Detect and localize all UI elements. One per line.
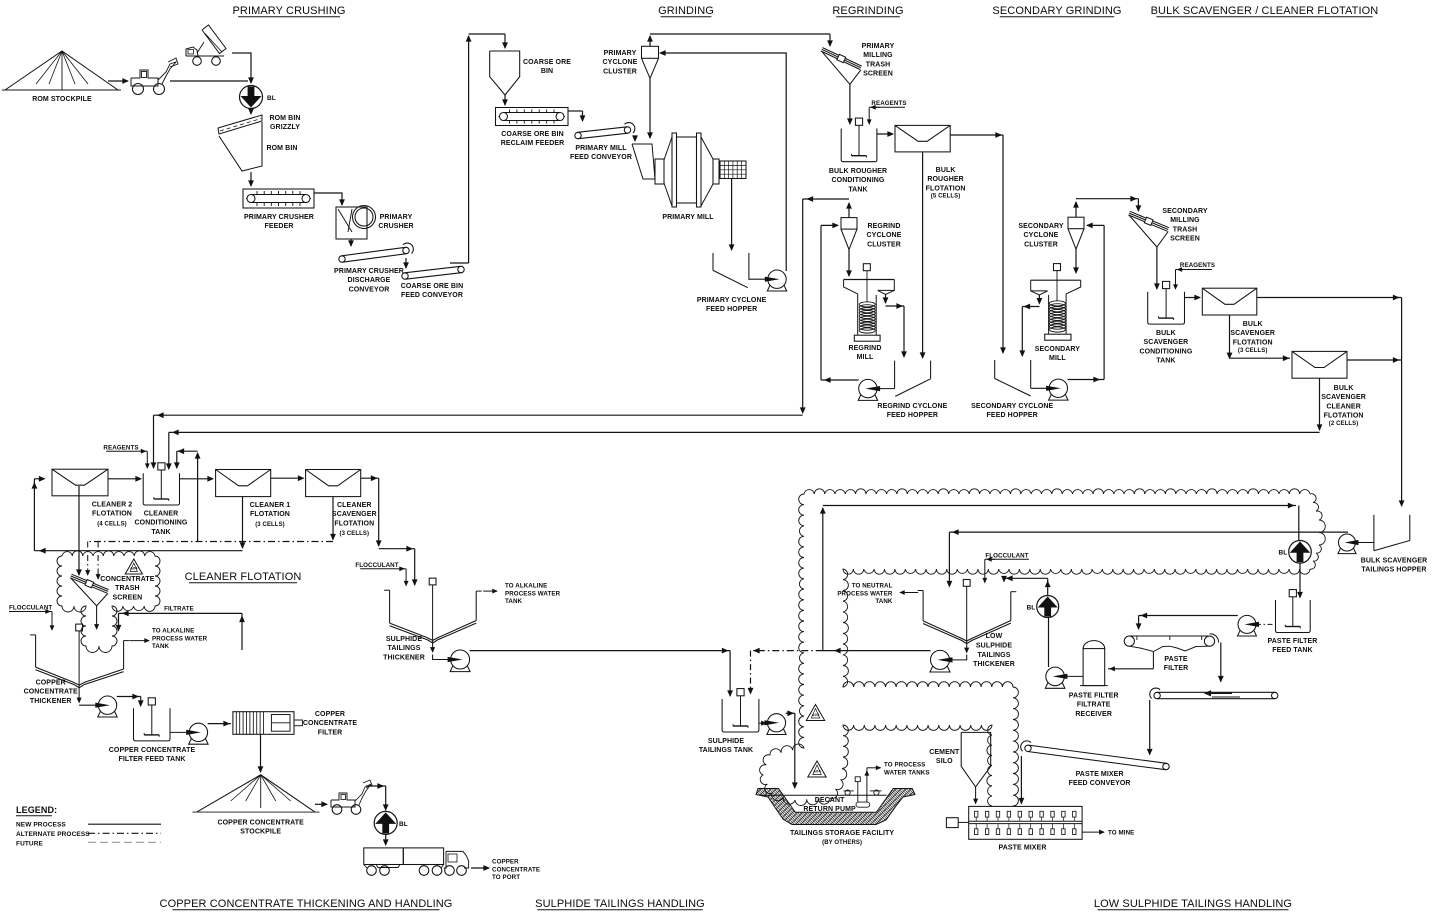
svg-text:ALTERNATE PROCESS: ALTERNATE PROCESS (16, 831, 90, 838)
primary mill (655, 159, 664, 184)
paste filter feed tank (1276, 600, 1311, 633)
svg-text:PRIMARY: PRIMARY (862, 43, 895, 50)
svg-text:FEEDER: FEEDER (265, 223, 294, 230)
pump filter feed (189, 723, 207, 741)
svg-text:FILTER FEED TANK: FILTER FEED TANK (118, 756, 185, 763)
svg-text:BIN: BIN (541, 68, 553, 75)
svg-text:PROCESS WATER: PROCESS WATER (837, 590, 893, 597)
svg-text:TAILINGS TANK: TAILINGS TANK (699, 747, 753, 754)
wire ls overflow neutral (900, 592, 918, 594)
wire bs cleaner tails long left (1319, 378, 1321, 430)
svg-text:SCAVENGER: SCAVENGER (332, 511, 377, 518)
svg-text:REGRINDING: REGRINDING (832, 5, 903, 17)
svg-text:SCREEN: SCREEN (1170, 236, 1200, 243)
wire pump3 to ls thickener (949, 531, 1348, 533)
svg-text:CRUSHER: CRUSHER (378, 223, 413, 230)
svg-text:CLEANER: CLEANER (337, 502, 372, 509)
svg-text:CLEANER: CLEANER (144, 511, 179, 518)
svg-text:TAILINGS: TAILINGS (978, 652, 1011, 659)
wire truck to bin (232, 52, 248, 54)
svg-text:MILLING: MILLING (863, 52, 893, 59)
svg-text:SECONDARY CYCLONE: SECONDARY CYCLONE (971, 403, 1053, 410)
primary crusher (336, 207, 367, 239)
svg-text:REAGENTS: REAGENTS (1180, 262, 1215, 269)
svg-text:FUTURE: FUTURE (16, 841, 44, 848)
svg-text:CONDITIONING: CONDITIONING (1139, 348, 1192, 355)
wire cyclone underflow to mill (649, 78, 651, 138)
svg-text:FILTER: FILTER (1164, 665, 1189, 672)
wire loader2 to bl (366, 785, 386, 787)
wire tank to pump2 (170, 731, 189, 733)
primary mill trommel (720, 161, 746, 179)
svg-text:SECONDARY: SECONDARY (1018, 223, 1064, 230)
svg-text:CLUSTER: CLUSTER (603, 68, 637, 75)
svg-text:FLOTATION: FLOTATION (1233, 339, 1273, 346)
svg-text:SULPHIDE: SULPHIDE (708, 738, 744, 745)
wire flocculant 0 (42, 611, 52, 613)
bulk rougher flotation cell (895, 125, 950, 151)
wire dashdot alt to sulphide tank (751, 650, 823, 652)
wire mixer to mine (1082, 831, 1104, 833)
wire cleaner1 to scav (271, 477, 304, 479)
svg-text:BULK: BULK (1156, 330, 1176, 337)
svg-text:SECONDARY GRINDING: SECONDARY GRINDING (992, 5, 1121, 17)
wire paste filter cake drop (1220, 643, 1222, 682)
cleaner 1 flotation cell (216, 470, 271, 497)
pump BL rom bin (240, 86, 263, 109)
wire reclaim to mill conveyor (568, 110, 583, 112)
svg-text:REGRIND: REGRIND (849, 345, 882, 352)
svg-text:NEW PROCESS: NEW PROCESS (16, 822, 66, 829)
svg-text:FLOTATION: FLOTATION (250, 511, 290, 518)
svg-text:TRASH: TRASH (1173, 226, 1198, 233)
svg-text:CYCLONE: CYCLONE (603, 59, 638, 66)
copper concentrate thickener (30, 634, 35, 636)
wire thickener uf to pump (78, 685, 80, 702)
wire cleaner1 tails to cleaner2 (242, 497, 244, 548)
coarse ore bin reclaim feeder (496, 108, 569, 126)
wire sulphide uf to pump (432, 640, 434, 652)
wire bs tank to flotation (1185, 297, 1201, 299)
svg-text:FLOCCULANT: FLOCCULANT (985, 552, 1028, 559)
tailings storage facility ground (756, 789, 915, 825)
svg-text:MILL: MILL (857, 354, 874, 361)
svg-text:BL: BL (1027, 605, 1036, 612)
svg-text:PRIMARY CYCLONE: PRIMARY CYCLONE (697, 297, 767, 304)
svg-text:STOCKPILE: STOCKPILE (240, 829, 281, 836)
svg-text:(3 CELLS): (3 CELLS) (340, 531, 370, 537)
svg-text:TO NEUTRAL: TO NEUTRAL (852, 583, 893, 590)
svg-text:BL: BL (267, 95, 276, 102)
front end loader 2 (331, 793, 355, 807)
svg-text:BULK: BULK (1334, 385, 1354, 392)
primary cyclone feed hopper (712, 253, 714, 270)
wire bs cleaner conc right (1347, 359, 1402, 361)
svg-text:FLOCCULANT: FLOCCULANT (355, 562, 398, 569)
wire feed onto paste filter (1139, 615, 1238, 617)
svg-text:FLOTATION: FLOTATION (334, 520, 374, 527)
wire reagents 2 (1178, 269, 1187, 271)
wire cleaner2 to cond tank (108, 478, 141, 480)
svg-text:TANK: TANK (151, 529, 170, 536)
cement silo (961, 732, 991, 787)
svg-text:CLUSTER: CLUSTER (1024, 241, 1058, 248)
pump sulphide tank (767, 714, 785, 732)
svg-text:FLOTATION: FLOTATION (1324, 413, 1364, 420)
svg-text:THICKENER: THICKENER (973, 661, 1015, 668)
svg-text:TAILINGS: TAILINGS (388, 645, 421, 652)
wire stockpile to loader (108, 80, 128, 82)
svg-text:BULK ROUGHER: BULK ROUGHER (829, 168, 887, 175)
svg-text:TRASH: TRASH (115, 585, 140, 592)
wire bl1 to thickener (1047, 578, 1049, 595)
haul truck dumping (186, 55, 224, 57)
svg-text:GRINDING: GRINDING (658, 5, 714, 17)
svg-text:RECLAIM FEEDER: RECLAIM FEEDER (501, 140, 565, 147)
rom bin grizzly (218, 115, 262, 134)
wire secondary cyclone underflow (1075, 249, 1077, 273)
svg-text:SILO: SILO (936, 758, 953, 765)
bulk scavenger tailings hopper (1373, 515, 1375, 551)
wire regrind cyclone overflow (848, 203, 850, 218)
wire dashdot drops to trash screen (87, 542, 89, 576)
wire bs flot tails to cleaner (1229, 315, 1231, 358)
wire truck to port (471, 867, 489, 869)
pump secondary cyclone feed (1049, 379, 1067, 397)
svg-text:TRASH: TRASH (866, 61, 891, 68)
paste filter return conveyor (1154, 692, 1160, 698)
svg-text:CONCENTRATE: CONCENTRATE (100, 576, 154, 583)
wire pump to sulphide tank (470, 650, 730, 652)
primary cyclone cluster (642, 46, 659, 58)
svg-text:TANK: TANK (875, 598, 893, 605)
svg-text:FLOCCULANT: FLOCCULANT (9, 605, 52, 612)
svg-text:ROUGHER: ROUGHER (927, 176, 963, 183)
svg-text:COPPER CONCENTRATE: COPPER CONCENTRATE (217, 820, 304, 827)
pump copper thickener uf (98, 696, 116, 714)
regrind mill (844, 279, 895, 281)
paste mixer (969, 806, 1082, 839)
cloud concentrate trash screen (57, 551, 160, 653)
wire secondary cyclone overflow (1075, 202, 1077, 217)
svg-text:PRIMARY: PRIMARY (604, 50, 637, 57)
svg-text:CONDITIONING: CONDITIONING (135, 520, 188, 527)
warning triangle A04 tsf (808, 761, 826, 777)
svg-text:PROCESS WATER: PROCESS WATER (152, 635, 208, 642)
svg-text:COPPER: COPPER (36, 680, 66, 687)
road train truck (364, 848, 404, 865)
svg-text:TO ALKALINE: TO ALKALINE (152, 628, 194, 635)
ls thickener drive (963, 580, 970, 587)
svg-text:DISCHARGE: DISCHARGE (348, 277, 391, 284)
svg-text:BL: BL (1279, 550, 1288, 557)
svg-text:SCREEN: SCREEN (113, 594, 143, 601)
secondary cyclone cluster (1068, 217, 1084, 229)
svg-text:TO ALKALINE: TO ALKALINE (505, 583, 547, 590)
wire bl2 to paste tank (1299, 563, 1301, 597)
svg-text:CLEANER: CLEANER (1326, 403, 1361, 410)
svg-text:FEED HOPPER: FEED HOPPER (706, 306, 757, 313)
wire hopper to regrind pump (877, 388, 895, 390)
coarse ore bin feed conveyor (402, 273, 408, 279)
wire return conveyor drop (1149, 700, 1151, 755)
wire regrind pump to cyclone (821, 379, 859, 381)
svg-text:CEMENT: CEMENT (929, 749, 960, 756)
wire bin to reclaim feeder (504, 95, 506, 105)
svg-text:ROM STOCKPILE: ROM STOCKPILE (32, 96, 92, 103)
wire conveyor3 to chute (634, 138, 636, 141)
wire conveyor to conveyor2 (405, 258, 407, 268)
pump primary cyclone feed (768, 270, 786, 288)
wire pump2 to filter (208, 723, 231, 725)
svg-text:TAILINGS STORAGE FACILITY: TAILINGS STORAGE FACILITY (790, 830, 894, 837)
paste filter (1124, 636, 1134, 646)
wire dashdot pump4 tank (1256, 623, 1276, 625)
svg-text:FEED HOPPER: FEED HOPPER (987, 412, 1038, 419)
svg-text:MILLING: MILLING (1170, 217, 1200, 224)
svg-text:PRIMARY MILL: PRIMARY MILL (662, 214, 714, 221)
svg-text:SULPHIDE TAILINGS HANDLING: SULPHIDE TAILINGS HANDLING (535, 898, 705, 910)
wire pump7 to tsf (786, 712, 795, 714)
svg-text:(4 CELLS): (4 CELLS) (97, 522, 127, 528)
wire screen2 to bs cond tank (1156, 247, 1158, 289)
svg-text:ROM BIN: ROM BIN (266, 145, 297, 152)
svg-text:LOW SULPHIDE TAILINGS HANDLING: LOW SULPHIDE TAILINGS HANDLING (1094, 898, 1292, 910)
svg-text:TANK: TANK (505, 598, 523, 605)
coarse ore bin (490, 51, 520, 95)
svg-text:PRIMARY: PRIMARY (380, 214, 413, 221)
svg-text:SULPHIDE: SULPHIDE (386, 636, 422, 643)
rom bin body (219, 122, 262, 171)
wire scav tails to sulphide thickener (361, 477, 379, 479)
wire filter to stockpile (260, 734, 262, 772)
svg-text:BULK: BULK (1243, 321, 1263, 328)
wire conveyor2 up to bin (450, 262, 469, 264)
svg-text:COPPER: COPPER (315, 711, 345, 718)
svg-text:BULK: BULK (936, 167, 956, 174)
wire ls uf to pump6 (966, 641, 968, 653)
secondary mill (1031, 279, 1081, 281)
front end loader (131, 70, 158, 86)
primary mill feed conveyor (575, 132, 581, 138)
thickener drive (76, 624, 83, 631)
wire tank to flotation (877, 133, 893, 135)
svg-text:MILL: MILL (1049, 355, 1066, 362)
svg-text:TANK: TANK (1156, 358, 1175, 365)
pump filtrate receiver (1046, 667, 1065, 686)
svg-text:SCAVENGER: SCAVENGER (1230, 330, 1275, 337)
svg-text:SULPHIDE: SULPHIDE (976, 642, 1012, 649)
wire bin to feeder (250, 172, 252, 186)
svg-text:REGRIND: REGRIND (868, 223, 901, 230)
svg-text:PASTE FILTER: PASTE FILTER (1069, 693, 1119, 700)
svg-text:FEED HOPPER: FEED HOPPER (887, 412, 938, 419)
ROM stockpile (5, 51, 118, 90)
wire pump6 discharge left (823, 650, 931, 652)
wire secondary mill discharge (1038, 295, 1040, 304)
wire secondary pump to cyclone (1068, 379, 1105, 381)
wire screen to cond tank (849, 84, 851, 124)
bulk scavenger flotation cell (1202, 288, 1257, 315)
cloud future inner (843, 569, 1310, 806)
cloud future cap (1310, 494, 1325, 569)
svg-text:COPPER: COPPER (492, 859, 519, 866)
svg-text:COPPER CONCENTRATE THICKENING: COPPER CONCENTRATE THICKENING AND HANDLI… (160, 898, 453, 910)
svg-text:SCAVENGER: SCAVENGER (1321, 394, 1366, 401)
svg-text:COARSE ORE BIN: COARSE ORE BIN (501, 131, 563, 138)
wire trash screen to thickener (96, 606, 98, 629)
svg-text:CONCENTRATE: CONCENTRATE (303, 720, 357, 727)
warning triangle A04 tsf edge (806, 705, 824, 721)
wire sulphide overflow alkaline (483, 590, 497, 592)
svg-text:SECONDARY: SECONDARY (1035, 346, 1081, 353)
copper concentrate stockpile (197, 775, 315, 812)
svg-text:CONVEYOR: CONVEYOR (349, 286, 390, 293)
wire cond tank to cleaner1 (180, 478, 214, 480)
svg-text:FEED CONVEYOR: FEED CONVEYOR (570, 154, 632, 161)
bulk scavenger conditioning tank (1148, 292, 1185, 324)
copper concentrate filter feed tank (134, 708, 171, 741)
pump ls thickener uf (931, 650, 950, 669)
svg-text:REAGENTS: REAGENTS (871, 100, 906, 107)
svg-text:CONDITIONING: CONDITIONING (832, 177, 885, 184)
svg-text:FILTER: FILTER (318, 729, 343, 736)
svg-text:PASTE: PASTE (1164, 656, 1188, 663)
svg-text:LOW: LOW (986, 633, 1003, 640)
wire stockpile to loader2 (315, 803, 327, 805)
decant return pump (855, 777, 860, 782)
svg-text:SECONDARY: SECONDARY (1162, 208, 1208, 215)
wire ls pump riser L1 (822, 508, 824, 651)
wire filtrate return (241, 613, 243, 650)
svg-text:THICKENER: THICKENER (30, 698, 72, 705)
svg-text:(3 CELLS): (3 CELLS) (1238, 348, 1268, 354)
svg-text:REAGENTS: REAGENTS (103, 445, 138, 452)
svg-text:CLUSTER: CLUSTER (867, 241, 901, 248)
primary milling trash screen (822, 49, 861, 68)
bulk scavenger cleaner flotation cell (1292, 351, 1347, 378)
svg-text:COARSE ORE BIN: COARSE ORE BIN (401, 283, 463, 290)
wire flocculant 1 (395, 568, 407, 570)
wire cleaner feed riser (33, 479, 35, 551)
secondary milling trash screen (1129, 213, 1168, 229)
cleaner conditioning tank (143, 473, 179, 505)
svg-text:(3 CELLS): (3 CELLS) (255, 522, 285, 528)
svg-text:PASTE MIXER: PASTE MIXER (998, 845, 1046, 852)
wire cyclone overflow to trash screen (649, 36, 651, 46)
cloud future low sulphide outer (760, 489, 1310, 806)
primary crusher discharge conveyor (339, 256, 345, 262)
pump BL concentrate (374, 811, 397, 834)
wire conveyor to paste mixer (1020, 756, 1022, 804)
svg-text:A04: A04 (812, 712, 820, 717)
regrind cyclone cluster (841, 218, 857, 230)
concentrate trash screen (71, 576, 108, 591)
regrind cyclone feed hopper (894, 361, 896, 389)
cleaner scavenger flotation cell (306, 470, 361, 497)
pump BL low sulphide transfer (1289, 541, 1312, 564)
sulphide thickener drive (429, 578, 436, 585)
pump sulphide thickener uf (451, 650, 470, 669)
svg-text:GRIZZLY: GRIZZLY (270, 124, 300, 131)
svg-text:A04: A04 (130, 566, 138, 571)
wire loader to bin (170, 80, 248, 82)
wire reagents 3 (136, 450, 147, 452)
svg-text:TANK: TANK (152, 643, 170, 650)
cleaner 2 flotation cell (52, 469, 108, 496)
pump BL filtrate booster (1037, 596, 1059, 618)
tsf water line (760, 794, 886, 796)
svg-text:FEED CONVEYOR: FEED CONVEYOR (401, 292, 463, 299)
wire flocculant 2 (987, 558, 995, 560)
svg-text:RECEIVER: RECEIVER (1075, 711, 1112, 718)
svg-text:PROCESS WATER: PROCESS WATER (505, 590, 561, 597)
svg-text:FEED TANK: FEED TANK (1272, 647, 1312, 654)
wire filter to receiver (1152, 652, 1154, 669)
bulk rougher conditioning tank (841, 129, 877, 162)
svg-text:TO PORT: TO PORT (492, 874, 520, 881)
wire pump to filter feed tank (117, 696, 141, 698)
wire reagents 1 (871, 106, 880, 108)
wire hopper to pump3 (1356, 542, 1374, 544)
svg-text:CYCLONE: CYCLONE (867, 232, 902, 239)
svg-text:WATER TANKS: WATER TANKS (884, 769, 930, 776)
wire feeder to crusher (314, 193, 342, 203)
wire pump to cyclone (662, 53, 786, 271)
svg-text:LEGEND:: LEGEND: (16, 805, 57, 815)
wire thickener overflow alkaline (129, 640, 149, 642)
svg-text:COPPER CONCENTRATE: COPPER CONCENTRATE (109, 747, 196, 754)
wire trommel to hopper (731, 179, 733, 251)
wire bl to truck (385, 835, 387, 846)
paste mixer feed conveyor (1025, 745, 1031, 751)
wire decant to process water (866, 768, 868, 802)
svg-text:FLOTATION: FLOTATION (926, 185, 966, 192)
svg-text:CONCENTRATE: CONCENTRATE (492, 866, 540, 873)
svg-text:FLOTATION: FLOTATION (92, 511, 132, 518)
wire regrind cyclone underflow (848, 250, 850, 276)
sulphide tailings thickener (384, 589, 390, 591)
wire cleaner2 conc to trash screen (78, 486, 80, 575)
wire silo to mixer (975, 787, 977, 804)
svg-text:(BY OTHERS): (BY OTHERS) (822, 840, 862, 846)
svg-text:(5 CELLS): (5 CELLS) (931, 194, 961, 200)
sulphide tailings tank (722, 699, 759, 732)
svg-text:PASTE FILTER: PASTE FILTER (1268, 638, 1318, 645)
wire bulk rougher conc to secondary (950, 134, 1003, 136)
svg-text:PRIMARY MILL: PRIMARY MILL (575, 145, 627, 152)
svg-text:BULK SCAVENGER: BULK SCAVENGER (1361, 558, 1428, 565)
svg-text:REGRIND CYCLONE: REGRIND CYCLONE (877, 403, 947, 410)
svg-text:CLEANER FLOTATION: CLEANER FLOTATION (185, 571, 302, 583)
svg-text:FILTRATE: FILTRATE (164, 606, 194, 613)
svg-text:(2 CELLS): (2 CELLS) (1329, 421, 1359, 427)
svg-text:PASTE MIXER: PASTE MIXER (1076, 771, 1124, 778)
wire hopper to secondary pump (1031, 387, 1050, 389)
svg-text:CLEANER 2: CLEANER 2 (92, 502, 133, 509)
svg-text:TANK: TANK (848, 186, 867, 193)
pump paste filter feed (1238, 615, 1256, 633)
svg-text:PRIMARY CRUSHER: PRIMARY CRUSHER (244, 214, 314, 221)
svg-text:A04: A04 (813, 769, 821, 774)
svg-text:SCAVENGER: SCAVENGER (1144, 339, 1189, 346)
wire receiver to pump5 (1064, 675, 1083, 677)
svg-text:TAILINGS HOPPER: TAILINGS HOPPER (1361, 567, 1426, 574)
svg-text:TO MINE: TO MINE (1108, 830, 1134, 837)
svg-text:ROM BIN: ROM BIN (269, 115, 300, 122)
paste filter filtrate receiver (1083, 649, 1105, 686)
low sulphide tailings thickener (918, 590, 924, 592)
